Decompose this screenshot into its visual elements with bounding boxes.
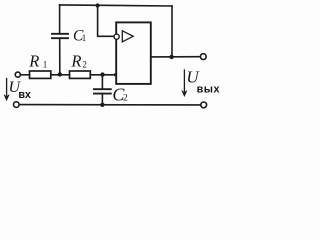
wire C1 lower vertical [59, 38, 61, 74]
node ground junction [100, 103, 104, 107]
svg-text:1: 1 [82, 33, 87, 43]
arrow U_vyx [182, 70, 187, 96]
capacitor C2 [94, 89, 111, 93]
resistor R2 [70, 71, 91, 78]
resistor R1 [30, 71, 51, 78]
arrow U_vx [4, 79, 9, 101]
wire C1 upper vertical [59, 5, 61, 34]
wire top feedback [60, 5, 172, 6]
node junction top (feedback tap) [96, 3, 100, 7]
svg-text:R: R [28, 52, 39, 71]
node op-amp input junction [114, 73, 117, 76]
wire C2 lower vertical [101, 94, 103, 105]
wire input to R1 [21, 74, 30, 76]
wire feedback down to inverting input [98, 6, 114, 37]
wire feedback right vertical [171, 6, 173, 57]
node output junction [169, 55, 173, 59]
op-amp inverting input circle [114, 34, 119, 39]
op-amp amplifier triangle [122, 31, 133, 42]
svg-text:R: R [70, 51, 81, 70]
wire bottom rail [19, 104, 201, 106]
terminal output top circle [200, 54, 206, 60]
node C2 tap junction [100, 72, 104, 76]
wire R2 to op-amp [90, 74, 116, 76]
svg-text:2: 2 [82, 59, 87, 69]
wire R1 to R2 [51, 74, 70, 76]
op-amp U1 body [116, 22, 151, 84]
svg-text:1: 1 [43, 60, 48, 70]
wire op-amp output [151, 56, 201, 58]
svg-text:вых: вых [197, 84, 220, 96]
node A junction [58, 72, 62, 76]
terminal input top circle [15, 72, 20, 77]
terminal output bottom circle [201, 102, 207, 108]
wire C2 upper vertical [101, 75, 103, 89]
svg-text:2: 2 [123, 94, 128, 104]
svg-text:вх: вх [18, 89, 30, 101]
terminal input bottom circle [13, 102, 19, 108]
capacitor C1 [52, 34, 68, 38]
